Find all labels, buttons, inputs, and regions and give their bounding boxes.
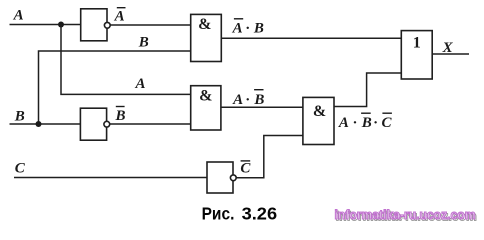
svg-text:A: A — [13, 8, 24, 24]
wire: AND DD5 output up to OR gate — [334, 73, 401, 107]
wire: NOT-C output up to AND gate DD5 — [236, 136, 303, 178]
svg-text:X: X — [442, 40, 454, 56]
AND gate DD2 (&amp;) inputs NOT-A and B — [191, 14, 222, 61]
wire: output X — [432, 53, 469, 55]
wire: AND DD2 output to OR gate — [221, 37, 401, 39]
wire: A down to lower AND gate — [61, 25, 191, 95]
label A AND NOT-B — [232, 90, 264, 109]
svg-text:&: & — [199, 87, 212, 104]
svg-text:A: A — [338, 115, 349, 131]
wire: NOT-B output to AND gate DD3 — [110, 123, 191, 125]
wire: NOT-A output to AND gate DD2 — [110, 24, 191, 26]
label NOT-A AND B — [232, 19, 264, 37]
svg-text:B: B — [253, 92, 264, 108]
svg-text:·: · — [246, 20, 250, 36]
svg-text:&: & — [313, 103, 326, 120]
NOT gate DD1 (inverter for A) — [81, 9, 111, 41]
caption: figure number — [202, 204, 278, 224]
wire: input A — [10, 24, 81, 26]
svg-text:&: & — [198, 16, 211, 33]
wire: B up to AND gate DD2 — [39, 51, 191, 124]
junction: A fan-out node — [58, 22, 64, 28]
svg-text:B: B — [115, 108, 126, 124]
AND gate DD5 (&amp;) inputs A·NOT-B and NOT-C — [303, 97, 334, 144]
NOT gate DD6 (inverter for C) — [207, 162, 236, 193]
watermark: site name — [335, 207, 477, 223]
svg-text:C: C — [240, 161, 251, 177]
junction: B fan-out node — [36, 121, 42, 127]
wire: input B — [10, 123, 81, 125]
svg-text:A: A — [232, 92, 243, 108]
svg-text:·: · — [353, 115, 357, 131]
svg-text:A: A — [232, 20, 243, 36]
svg-text:Рис.: Рис. — [202, 204, 235, 224]
svg-text:B: B — [138, 34, 149, 50]
NOT gate DD4 (inverter for B) — [80, 108, 109, 140]
svg-text:3.26: 3.26 — [242, 204, 278, 224]
svg-text:B: B — [14, 108, 25, 124]
svg-text:A: A — [135, 76, 146, 92]
svg-text:B: B — [361, 115, 372, 131]
wire: input C — [14, 177, 207, 179]
label A AND NOT-B AND NOT-C — [338, 113, 393, 131]
svg-text:informatika-ru.ucoz.com: informatika-ru.ucoz.com — [335, 207, 476, 222]
svg-text:A: A — [114, 9, 125, 25]
AND gate DD3 (&amp;) inputs A and NOT-B — [191, 86, 221, 130]
label NOT-C — [240, 161, 251, 177]
wire: AND DD3 output to AND gate DD5 — [221, 106, 303, 108]
svg-text:1: 1 — [413, 34, 421, 51]
svg-text:·: · — [374, 115, 378, 131]
svg-text:C: C — [15, 160, 26, 176]
OR gate DD7 (1) — [401, 31, 432, 79]
svg-text:·: · — [246, 92, 250, 108]
svg-text:C: C — [382, 115, 393, 131]
label NOT-B — [115, 107, 126, 124]
svg-text:B: B — [253, 20, 264, 36]
label NOT-A — [114, 8, 126, 25]
